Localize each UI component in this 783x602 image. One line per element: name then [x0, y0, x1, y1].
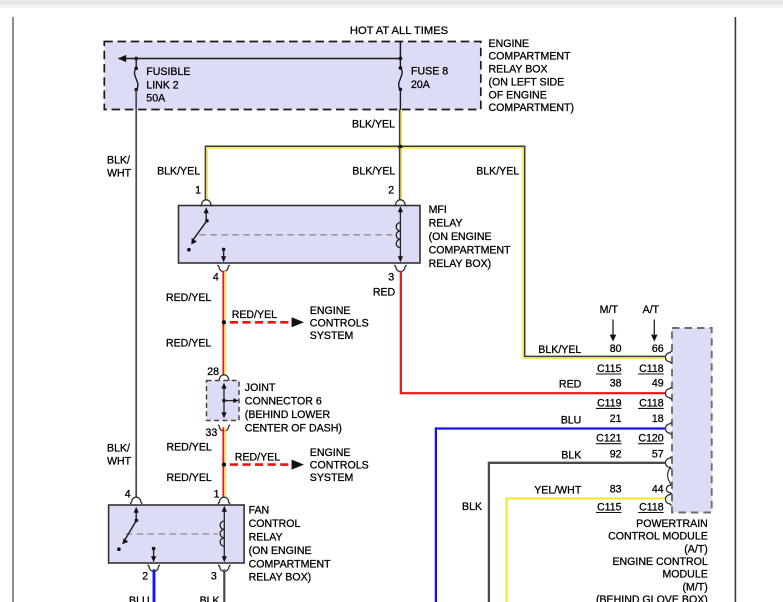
svg-text:LINK 2: LINK 2 [146, 79, 178, 91]
connector bracket between pins 57 and 44 PCM [668, 467, 671, 484]
connector pin 18/21 PCM [665, 422, 671, 434]
svg-text:CONTROLS: CONTROLS [310, 460, 369, 472]
switch (fan control relay) [134, 507, 139, 513]
svg-text:FUSE 8: FUSE 8 [411, 65, 448, 77]
svg-text:CONNECTOR 6: CONNECTOR 6 [245, 395, 322, 407]
svg-text:MODULE: MODULE [662, 569, 707, 581]
svg-text:CONTROLS: CONTROLS [310, 317, 369, 329]
svg-text:(BEHIND GLOVE BOX): (BEHIND GLOVE BOX) [596, 594, 708, 602]
svg-text:RED/YEL: RED/YEL [166, 442, 211, 454]
svg-text:FUSIBLE: FUSIBLE [146, 66, 190, 78]
svg-text:38: 38 [610, 377, 622, 389]
fusible link 2 50A [135, 59, 137, 69]
connector pin 33 joint connector 6 [218, 425, 230, 431]
svg-text:28: 28 [207, 366, 219, 378]
svg-text:2: 2 [388, 185, 394, 197]
svg-text:RED/YEL: RED/YEL [166, 292, 211, 304]
svg-text:49: 49 [652, 377, 664, 389]
connector pin 28 joint connector 6 [218, 375, 230, 381]
svg-text:RED/YEL: RED/YEL [166, 472, 211, 484]
connector pin 4 MFI relay [217, 265, 229, 271]
svg-text:SYSTEM: SYSTEM [310, 330, 354, 342]
svg-text:WHT: WHT [107, 168, 132, 180]
svg-text:3: 3 [211, 571, 217, 583]
MFI relay box [179, 206, 421, 264]
connector pin 66/80 PCM [665, 351, 671, 363]
svg-text:57: 57 [652, 448, 664, 460]
svg-text:COMPARTMENT: COMPARTMENT [429, 244, 512, 256]
svg-text:BLK: BLK [561, 450, 581, 462]
svg-text:BLU: BLU [561, 414, 582, 426]
arrow M/T [612, 320, 614, 338]
svg-text:RELAY BOX): RELAY BOX) [249, 572, 312, 584]
svg-text:BLK/YEL: BLK/YEL [352, 119, 395, 131]
svg-text:20A: 20A [411, 79, 431, 91]
svg-text:RELAY BOX): RELAY BOX) [429, 258, 492, 270]
svg-text:C118: C118 [639, 363, 664, 375]
svg-text:66: 66 [652, 343, 664, 355]
svg-text:POWERTRAIN: POWERTRAIN [636, 518, 708, 530]
svg-text:RELAY: RELAY [429, 217, 463, 229]
svg-text:JOINT: JOINT [245, 382, 276, 394]
svg-text:MFI: MFI [429, 204, 447, 216]
junction fusible link tap [134, 57, 138, 61]
svg-text:C121: C121 [596, 433, 621, 445]
svg-text:(ON ENGINE: (ON ENGINE [249, 545, 312, 557]
svg-text:RELAY: RELAY [249, 532, 283, 544]
wire supply feed into box [399, 42, 401, 59]
svg-text:(M/T): (M/T) [683, 581, 708, 593]
wire BLK/WHT fusible link to fan control relay pin 4 [135, 90, 137, 498]
svg-text:(A/T): (A/T) [684, 543, 708, 555]
dashed link switch-coil (fan control relay) [126, 533, 219, 535]
connector pin 49/38 PCM [665, 387, 671, 399]
dashed link switch-coil (MFI relay) [199, 234, 392, 236]
svg-text:44: 44 [652, 484, 664, 496]
junction RED/YEL node (lower) [222, 462, 226, 466]
svg-text:BLK/: BLK/ [107, 442, 130, 454]
svg-text:RED: RED [373, 287, 396, 299]
svg-text:RED: RED [559, 379, 582, 391]
arrow continuation (left) [118, 55, 126, 62]
svg-text:CENTER OF DASH): CENTER OF DASH) [245, 422, 342, 434]
svg-text:COMPARTMENT): COMPARTMENT) [489, 102, 575, 114]
wire BLK fan control relay pin 3 [223, 569, 225, 602]
svg-text:A/T: A/T [643, 304, 660, 316]
junction fuse 8 tap [399, 57, 403, 61]
svg-text:C120: C120 [638, 433, 663, 445]
svg-text:C115: C115 [597, 363, 622, 375]
connector pin 1 MFI relay [200, 200, 212, 206]
svg-text:ENGINE: ENGINE [310, 447, 351, 459]
svg-text:C115: C115 [597, 501, 622, 513]
junction RED/YEL node (upper) [222, 320, 226, 324]
svg-text:BLK: BLK [200, 595, 220, 602]
svg-text:ENGINE: ENGINE [310, 305, 351, 317]
wire bus HOT AT ALL TIMES [119, 58, 401, 60]
connector pin 3 fan control relay [218, 565, 230, 571]
arrow A/T [653, 320, 655, 338]
wire YEL/WHT to PCM pin 83/44 [507, 499, 665, 602]
wire BLK/YEL horizontal distribution + right drop to PCM [205, 146, 665, 356]
wire RED/YEL MFI pin 4 to joint connector 6 [222, 271, 224, 375]
svg-text:21: 21 [610, 413, 622, 425]
svg-text:FAN: FAN [249, 505, 270, 517]
svg-text:(ON LEFT SIDE: (ON LEFT SIDE [489, 76, 565, 88]
svg-text:BLK/YEL: BLK/YEL [476, 166, 519, 178]
wire RED/YEL dashed to engine controls system (lower) [230, 463, 291, 466]
svg-text:YEL/WHT: YEL/WHT [534, 485, 582, 497]
wire BLU to PCM pin 21/18 [436, 429, 665, 602]
svg-text:BLK/YEL: BLK/YEL [157, 166, 200, 178]
junction BLK/YEL node [398, 145, 402, 149]
svg-text:3: 3 [388, 272, 394, 284]
connector pin 44/83 PCM [665, 493, 671, 505]
fan control relay box [109, 505, 245, 563]
svg-text:RED/YEL: RED/YEL [232, 309, 277, 321]
bus bar (joint connector 6) [223, 385, 225, 417]
contact pin 4 (MFI relay) [222, 248, 226, 252]
svg-text:92: 92 [610, 448, 622, 460]
connector pin 57/92 PCM [665, 457, 671, 469]
svg-text:33: 33 [206, 427, 218, 439]
connector pin 3 MFI relay [394, 265, 406, 271]
svg-text:COMPARTMENT: COMPARTMENT [489, 51, 572, 63]
joint connector 6 box [207, 381, 240, 421]
fuse 8 20A [399, 59, 401, 68]
wire BLU fan control relay pin 2 [153, 569, 156, 602]
svg-text:SYSTEM: SYSTEM [310, 472, 354, 484]
svg-text:M/T: M/T [600, 304, 619, 316]
svg-text:C118: C118 [639, 397, 664, 409]
svg-text:83: 83 [610, 484, 622, 496]
svg-text:80: 80 [610, 343, 622, 355]
connector pin 1 fan control relay [218, 497, 230, 503]
wire RED/YEL dashed to engine controls system (upper) [230, 321, 291, 324]
arrow to engine controls system (upper) [292, 317, 304, 327]
svg-text:BLK: BLK [462, 501, 482, 513]
svg-text:1: 1 [214, 489, 220, 501]
connector pin 2 MFI relay [394, 200, 406, 206]
coil (MFI relay) [399, 208, 401, 261]
svg-text:2: 2 [142, 571, 148, 583]
svg-text:BLK/YEL: BLK/YEL [352, 166, 395, 178]
connector pin 4 fan control relay [130, 497, 142, 503]
svg-text:50A: 50A [146, 93, 166, 105]
connector pin 2 fan control relay [148, 565, 160, 571]
svg-text:ENGINE CONTROL: ENGINE CONTROL [612, 556, 707, 568]
engine compartment relay box (dashed box) [104, 42, 481, 110]
svg-text:CONTROL: CONTROL [249, 518, 301, 530]
svg-text:RELAY BOX: RELAY BOX [489, 64, 548, 76]
svg-text:HOT AT ALL TIMES: HOT AT ALL TIMES [350, 25, 448, 37]
connector pin 44 PCM (upper arc) [666, 484, 671, 494]
svg-text:OF ENGINE: OF ENGINE [489, 89, 547, 101]
svg-text:BLU: BLU [129, 595, 150, 602]
svg-text:RED/YEL: RED/YEL [235, 452, 280, 464]
svg-text:C118: C118 [639, 501, 664, 513]
svg-text:4: 4 [125, 489, 131, 501]
svg-text:(ON ENGINE: (ON ENGINE [429, 231, 492, 243]
contact pin 2 (fan control relay) [152, 547, 156, 551]
wire BLK/YEL junction to MFI relay pin 2 [399, 148, 401, 200]
svg-text:COMPARTMENT: COMPARTMENT [249, 558, 332, 570]
wire BLK to PCM pin 92/57 [489, 463, 665, 602]
svg-text:(BEHIND LOWER: (BEHIND LOWER [245, 409, 331, 421]
coil (fan control relay) [223, 507, 225, 561]
svg-text:BLK/YEL: BLK/YEL [538, 344, 581, 356]
svg-text:WHT: WHT [107, 456, 132, 468]
svg-text:RED/YEL: RED/YEL [166, 338, 211, 350]
svg-text:CONTROL MODULE: CONTROL MODULE [608, 531, 708, 543]
svg-text:1: 1 [195, 185, 201, 197]
wire BLK/YEL fuse 8 to junction [399, 110, 401, 148]
switch (MFI relay) [204, 207, 209, 213]
svg-text:C119: C119 [597, 397, 622, 409]
svg-text:18: 18 [652, 413, 664, 425]
wire RED MFI relay pin 3 to PCM [401, 271, 665, 393]
arrow to engine controls system (lower) [292, 460, 304, 470]
svg-text:4: 4 [213, 272, 219, 284]
svg-text:ENGINE: ENGINE [489, 38, 530, 50]
wire RED/YEL joint connector 6 to fan control relay pin 1 [222, 427, 224, 497]
powertrain control module box [672, 328, 712, 513]
svg-text:BLK/: BLK/ [107, 154, 130, 166]
